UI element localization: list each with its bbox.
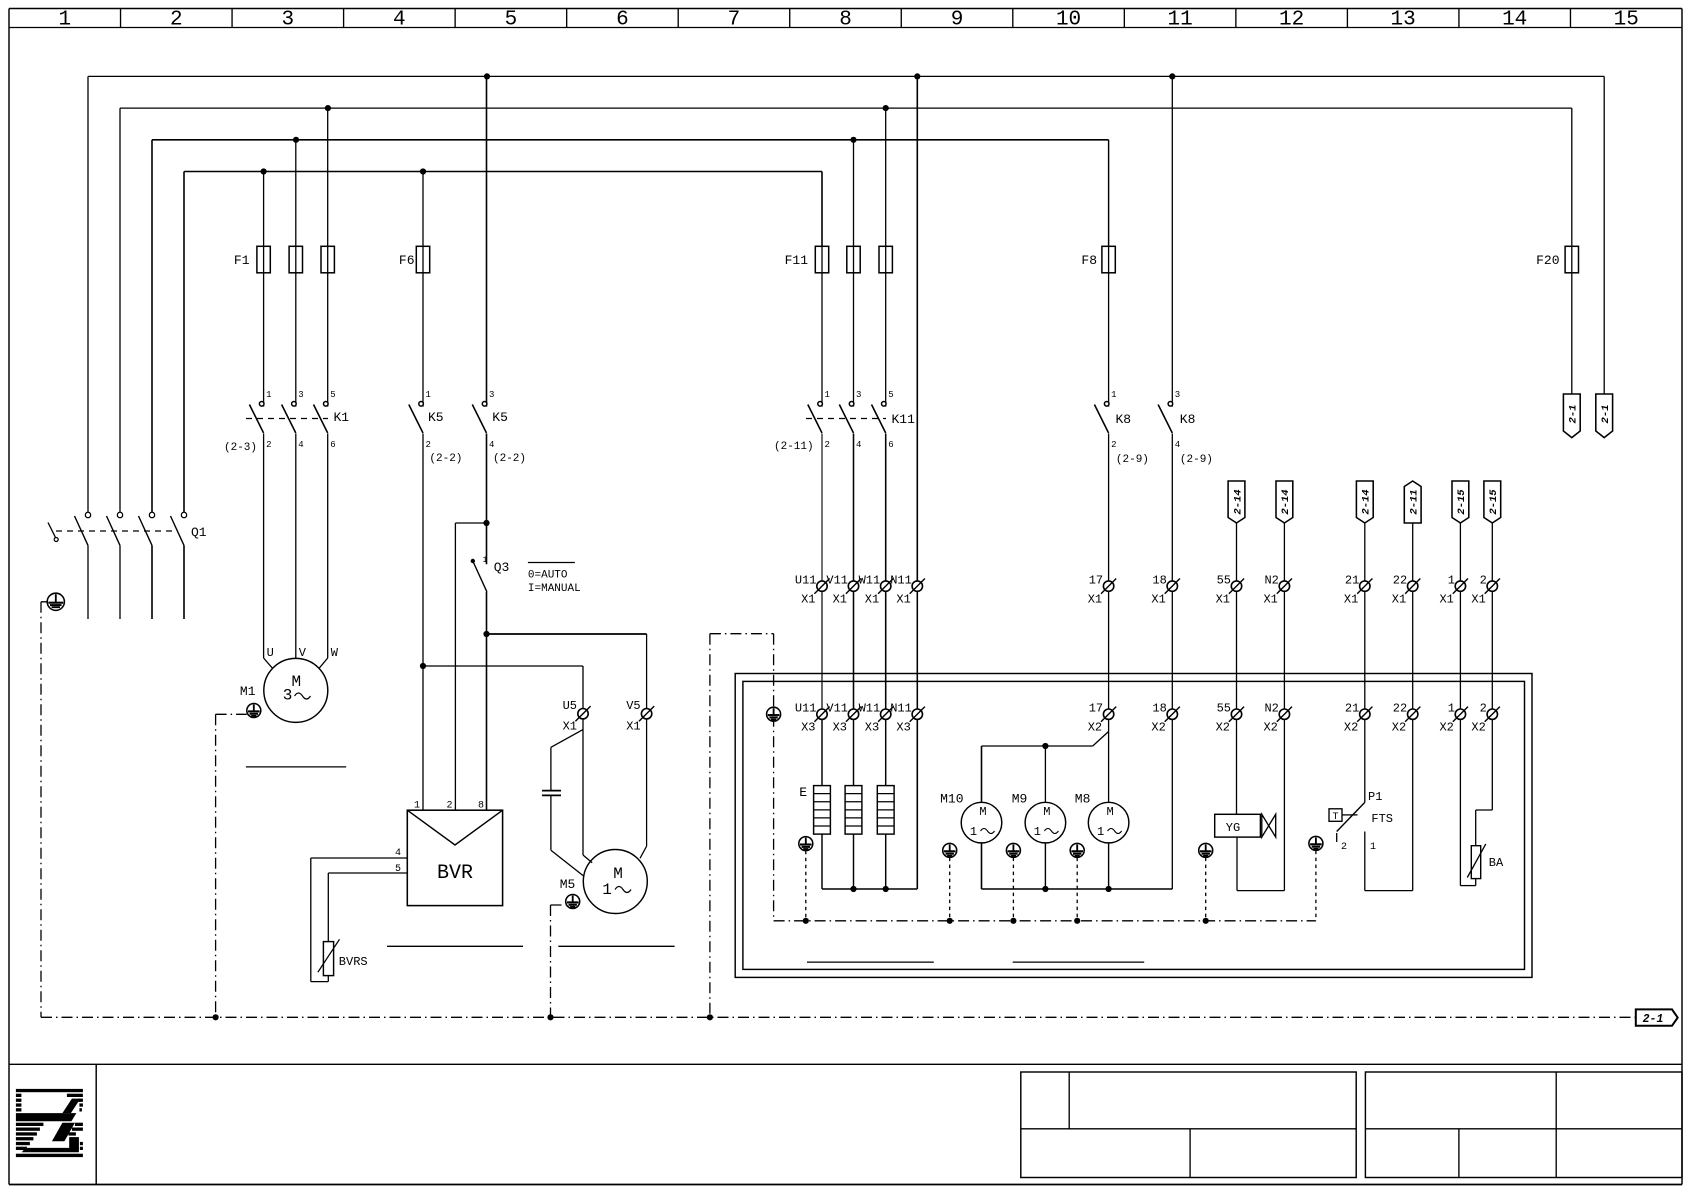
svg-text:2: 2 — [825, 440, 830, 450]
svg-text:1: 1 — [1034, 825, 1041, 839]
svg-text:22: 22 — [1393, 574, 1407, 588]
svg-text:X2: X2 — [1392, 721, 1406, 735]
svg-text:U5: U5 — [563, 699, 577, 713]
svg-text:3: 3 — [283, 687, 293, 705]
svg-text:17: 17 — [1089, 574, 1103, 588]
svg-text:1: 1 — [602, 881, 612, 899]
svg-text:2: 2 — [426, 440, 431, 450]
svg-text:M1: M1 — [240, 684, 256, 699]
svg-text:K5: K5 — [428, 410, 444, 425]
svg-text:V5: V5 — [626, 699, 640, 713]
svg-text:2: 2 — [1480, 574, 1487, 588]
svg-text:U11: U11 — [795, 702, 817, 716]
svg-text:YG: YG — [1226, 821, 1240, 835]
svg-text:K8: K8 — [1116, 412, 1132, 427]
svg-text:22: 22 — [1393, 702, 1407, 716]
svg-text:3: 3 — [856, 390, 861, 400]
svg-text:X1: X1 — [833, 593, 847, 607]
svg-text:V11: V11 — [826, 574, 848, 588]
svg-text:M10: M10 — [940, 792, 963, 807]
svg-text:2-14: 2-14 — [1232, 489, 1244, 514]
svg-text:4: 4 — [856, 440, 861, 450]
svg-text:BA: BA — [1489, 856, 1504, 870]
svg-text:M8: M8 — [1075, 792, 1091, 807]
svg-text:N2: N2 — [1264, 574, 1278, 588]
svg-text:7: 7 — [728, 9, 741, 32]
svg-text:4: 4 — [489, 440, 494, 450]
svg-text:1: 1 — [483, 556, 488, 565]
svg-text:1: 1 — [825, 390, 830, 400]
svg-text:X1: X1 — [563, 720, 577, 734]
svg-text:5: 5 — [505, 9, 518, 32]
svg-text:K5: K5 — [492, 410, 508, 425]
svg-text:V11: V11 — [826, 702, 848, 716]
svg-text:T: T — [1332, 812, 1338, 823]
svg-text:U: U — [267, 646, 274, 660]
svg-text:F1: F1 — [234, 253, 250, 268]
svg-text:2: 2 — [266, 440, 271, 450]
svg-text:10: 10 — [1056, 9, 1081, 32]
svg-text:1: 1 — [1370, 842, 1376, 853]
svg-text:6: 6 — [616, 9, 629, 32]
svg-text:5: 5 — [330, 390, 335, 400]
svg-text:M: M — [979, 805, 986, 819]
svg-text:X1: X1 — [801, 593, 815, 607]
svg-text:X1: X1 — [626, 720, 640, 734]
svg-text:18: 18 — [1152, 574, 1166, 588]
svg-text:F6: F6 — [399, 253, 415, 268]
svg-text:V: V — [299, 646, 307, 660]
svg-text:K11: K11 — [892, 412, 916, 427]
svg-text:9: 9 — [951, 9, 964, 32]
svg-text:X2: X2 — [1344, 721, 1358, 735]
svg-text:6: 6 — [330, 440, 335, 450]
svg-text:X2: X2 — [1263, 721, 1277, 735]
svg-text:12: 12 — [1279, 9, 1304, 32]
svg-text:M5: M5 — [560, 877, 576, 892]
svg-text:1: 1 — [1448, 702, 1455, 716]
svg-text:X3: X3 — [865, 721, 879, 735]
svg-text:3: 3 — [489, 390, 494, 400]
svg-text:2-1: 2-1 — [1568, 405, 1580, 424]
svg-text:17: 17 — [1089, 702, 1103, 716]
svg-text:M: M — [1043, 805, 1050, 819]
svg-text:F20: F20 — [1536, 253, 1559, 268]
svg-text:M: M — [613, 865, 623, 883]
svg-text:55: 55 — [1217, 702, 1231, 716]
svg-text:2: 2 — [1480, 702, 1487, 716]
svg-text:X1: X1 — [1088, 593, 1102, 607]
svg-text:2-15: 2-15 — [1456, 489, 1468, 515]
svg-text:FTS: FTS — [1371, 812, 1393, 826]
svg-text:0=AUTO: 0=AUTO — [528, 570, 568, 582]
svg-text:21: 21 — [1345, 574, 1359, 588]
svg-text:X2: X2 — [1471, 721, 1485, 735]
svg-text:1: 1 — [1097, 825, 1104, 839]
svg-text:X1: X1 — [1216, 593, 1230, 607]
svg-text:4: 4 — [393, 9, 406, 32]
svg-text:X1: X1 — [1471, 593, 1485, 607]
svg-text:4: 4 — [395, 848, 401, 859]
svg-text:X2: X2 — [1216, 721, 1230, 735]
svg-text:X1: X1 — [896, 593, 910, 607]
svg-text:4: 4 — [298, 440, 303, 450]
svg-text:W11: W11 — [859, 702, 881, 716]
svg-text:N11: N11 — [890, 574, 912, 588]
svg-text:6: 6 — [888, 440, 893, 450]
svg-text:8: 8 — [839, 9, 852, 32]
svg-text:M: M — [1106, 805, 1113, 819]
svg-text:4: 4 — [1175, 440, 1180, 450]
svg-text:W11: W11 — [859, 574, 881, 588]
svg-text:8: 8 — [478, 801, 484, 812]
svg-text:1: 1 — [414, 801, 420, 812]
svg-text:5: 5 — [395, 864, 401, 875]
svg-text:Q1: Q1 — [191, 525, 207, 540]
svg-text:2-1: 2-1 — [1600, 405, 1612, 424]
svg-text:14: 14 — [1502, 9, 1527, 32]
svg-text:X1: X1 — [1439, 593, 1453, 607]
svg-text:X3: X3 — [896, 721, 910, 735]
svg-text:F8: F8 — [1081, 253, 1097, 268]
svg-text:U11: U11 — [795, 574, 817, 588]
svg-text:3: 3 — [298, 390, 303, 400]
svg-text:E: E — [799, 785, 807, 800]
svg-text:1: 1 — [1448, 574, 1455, 588]
svg-text:X1: X1 — [865, 593, 879, 607]
svg-text:1: 1 — [970, 825, 977, 839]
svg-text:21: 21 — [1345, 702, 1359, 716]
svg-text:18: 18 — [1152, 702, 1166, 716]
svg-text:W: W — [331, 646, 339, 660]
svg-text:2-14: 2-14 — [1361, 489, 1373, 514]
svg-text:I=MANUAL: I=MANUAL — [528, 583, 581, 595]
svg-text:3: 3 — [1175, 390, 1180, 400]
svg-text:X1: X1 — [1263, 593, 1277, 607]
svg-text:1: 1 — [266, 390, 271, 400]
svg-text:2: 2 — [446, 801, 452, 812]
svg-text:X2: X2 — [1439, 721, 1453, 735]
svg-text:N2: N2 — [1264, 702, 1278, 716]
svg-text:2-15: 2-15 — [1488, 489, 1500, 515]
svg-text:X3: X3 — [833, 721, 847, 735]
svg-text:15: 15 — [1614, 9, 1639, 32]
svg-text:2-14: 2-14 — [1280, 489, 1292, 514]
svg-text:5: 5 — [888, 390, 893, 400]
svg-text:1: 1 — [426, 390, 431, 400]
svg-text:13: 13 — [1391, 9, 1416, 32]
svg-text:X2: X2 — [1088, 721, 1102, 735]
svg-text:2: 2 — [1341, 842, 1347, 853]
svg-text:K8: K8 — [1180, 412, 1196, 427]
svg-text:P1: P1 — [1368, 790, 1382, 804]
svg-text:M9: M9 — [1012, 792, 1028, 807]
svg-text:2: 2 — [170, 9, 183, 32]
svg-text:BVR: BVR — [437, 862, 473, 885]
svg-text:N11: N11 — [890, 702, 912, 716]
svg-text:M: M — [291, 673, 301, 691]
svg-text:X1: X1 — [1151, 593, 1165, 607]
svg-text:2-1: 2-1 — [1643, 1013, 1664, 1026]
svg-text:(2-11): (2-11) — [774, 441, 814, 453]
svg-text:Q3: Q3 — [494, 560, 510, 575]
svg-text:(2-9): (2-9) — [1180, 454, 1213, 466]
svg-text:11: 11 — [1167, 9, 1192, 32]
svg-text:BVRS: BVRS — [339, 955, 368, 969]
svg-text:(2-3): (2-3) — [224, 442, 257, 454]
svg-text:3: 3 — [282, 9, 295, 32]
svg-text:1: 1 — [1111, 390, 1116, 400]
svg-text:(2-9): (2-9) — [1116, 454, 1149, 466]
svg-text:2: 2 — [1111, 440, 1116, 450]
svg-text:(2-2): (2-2) — [429, 453, 462, 465]
svg-text:F11: F11 — [785, 253, 809, 268]
svg-text:X2: X2 — [1151, 721, 1165, 735]
svg-text:(2-2): (2-2) — [493, 453, 526, 465]
svg-text:55: 55 — [1217, 574, 1231, 588]
svg-text:X1: X1 — [1392, 593, 1406, 607]
svg-text:X3: X3 — [801, 721, 815, 735]
svg-text:X1: X1 — [1344, 593, 1358, 607]
svg-text:K1: K1 — [334, 410, 350, 425]
svg-text:1: 1 — [58, 9, 71, 32]
svg-text:2-11: 2-11 — [1409, 489, 1421, 514]
